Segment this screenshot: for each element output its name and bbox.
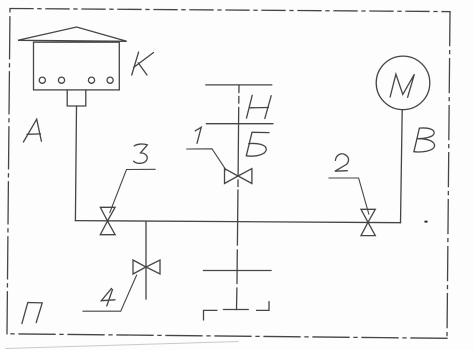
wire branch to valve 4 (145, 222, 147, 299)
node H (247, 95, 272, 118)
node Б (246, 132, 269, 156)
label 3 (110, 144, 155, 212)
wire lower cross bar (204, 270, 272, 272)
wire center vertical line (237, 85, 240, 310)
valve 3 (100, 207, 115, 234)
wire main horizontal line (75, 221, 400, 223)
label K (132, 52, 154, 75)
node П (22, 303, 42, 324)
motor M (376, 56, 430, 110)
drain pit dashed bracket left (204, 310, 217, 320)
valve 1 (225, 169, 252, 184)
label 1 (187, 127, 226, 170)
drain pit dashed bracket right (257, 302, 269, 311)
valve 4 (133, 260, 160, 274)
drain outlet T-end (224, 309, 249, 311)
node B (414, 128, 435, 152)
node bar B middle (206, 123, 272, 125)
node A (23, 119, 41, 142)
node bar H top (206, 84, 272, 86)
label 4 (83, 275, 137, 311)
tank K (18, 27, 127, 106)
label M (390, 74, 414, 97)
label 2 (329, 154, 369, 214)
wire from motor M down to main line (401, 110, 403, 223)
wire from tank K down to main line (75, 106, 76, 221)
valve 2 (361, 209, 375, 235)
